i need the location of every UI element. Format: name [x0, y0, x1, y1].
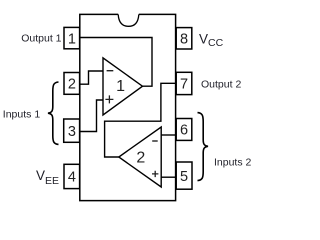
wire pin5 to op-amp2 non-inverting input [161, 176, 176, 178]
op-amp 2 plus sign [152, 171, 158, 177]
svg-text:Inputs 2: Inputs 2 [214, 157, 252, 169]
svg-text:Inputs 1: Inputs 1 [3, 108, 41, 120]
IC body outline U1 [80, 14, 176, 200]
svg-text:8: 8 [180, 32, 188, 48]
op-amp 2 triangle [119, 127, 161, 187]
svg-text:2: 2 [136, 150, 145, 167]
op-amp 1 minus sign [107, 70, 114, 72]
svg-text:5: 5 [180, 169, 188, 185]
wire pin7 to op-amp2 output [105, 83, 177, 157]
pin 1 box [64, 27, 80, 48]
svg-text:VEE: VEE [36, 168, 59, 187]
pin 4 box [64, 164, 80, 188]
pin 3 box [64, 119, 80, 142]
svg-text:2: 2 [68, 77, 76, 93]
wire pin1 to op-amp1 output [80, 38, 152, 87]
svg-text:1: 1 [116, 78, 125, 95]
op-amp 1 plus sign [105, 95, 113, 103]
wire pin6 to op-amp2 inverting input [161, 134, 176, 136]
op-amp 2 minus sign [152, 140, 158, 142]
svg-text:3: 3 [68, 124, 76, 140]
pin 2 box [64, 73, 80, 95]
brace for Inputs 2 [198, 113, 209, 181]
svg-text:Output 2: Output 2 [201, 78, 241, 90]
svg-text:7: 7 [180, 77, 188, 93]
svg-text:VCC: VCC [199, 31, 224, 49]
pin 5 box [176, 162, 192, 189]
svg-text:1: 1 [68, 31, 76, 47]
svg-text:Output 1: Output 1 [21, 33, 61, 45]
brace for Inputs 1 [48, 82, 59, 144]
wire pin2 to op-amp1 inverting input [80, 71, 103, 84]
pin 8 box [176, 28, 192, 49]
notch (pin-1 index) [118, 14, 139, 26]
op-amp 1 triangle [103, 58, 143, 115]
svg-text:4: 4 [68, 170, 76, 186]
pin 6 box [176, 119, 192, 141]
wire pin3 to op-amp1 non-inverting input [80, 100, 103, 132]
svg-text:6: 6 [180, 123, 188, 139]
pin 7 box [176, 72, 192, 94]
